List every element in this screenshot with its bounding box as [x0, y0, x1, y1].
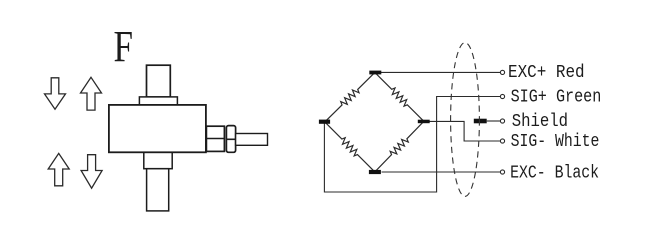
- svg-text:EXC- Black: EXC- Black: [510, 162, 599, 183]
- connector block A: [206, 126, 224, 151]
- wire EXC- from bottom node: [382, 171, 501, 173]
- load cell body: [109, 105, 206, 152]
- resistor R2 (top-right arm): [372, 70, 427, 125]
- wire SIG+ from left node: [324, 97, 500, 193]
- load cell top flange: [139, 97, 177, 105]
- wire shield lead: [487, 120, 501, 122]
- arrow up (bottom-left): [48, 153, 69, 185]
- arrow down (bottom-right): [81, 155, 102, 189]
- arrow down (top-left): [45, 78, 66, 109]
- resistor R3 (bottom-left arm): [322, 119, 377, 174]
- node pad top: [369, 71, 381, 75]
- terminal circle SIG-: [500, 139, 504, 143]
- wire SIG- from right node: [430, 121, 501, 141]
- cable rod: [236, 134, 268, 146]
- svg-text:SIG+ Green: SIG+ Green: [511, 86, 602, 107]
- node pad bottom: [369, 170, 381, 174]
- node pad left: [319, 120, 330, 124]
- load cell top stud: [147, 65, 171, 97]
- node pad right: [418, 120, 430, 124]
- terminal circle SIG+: [500, 94, 504, 98]
- resistor R1 (top-left arm): [322, 70, 377, 124]
- terminal circle Shield: [500, 119, 504, 123]
- arrow up (top-right): [81, 77, 102, 110]
- connector block B: [226, 126, 235, 153]
- svg-text:EXC+ Red: EXC+ Red: [508, 62, 585, 83]
- wire EXC+ from top node: [381, 71, 500, 73]
- shield pad: [474, 119, 487, 124]
- terminal circle EXC+: [500, 70, 504, 74]
- resistor R4 (bottom-right arm): [372, 119, 426, 175]
- load cell bottom flange: [144, 152, 172, 169]
- load cell bottom stud: [147, 169, 169, 211]
- connector block A mid line: [206, 138, 224, 140]
- svg-text:SIG- White: SIG- White: [511, 131, 600, 152]
- svg-text:Shield: Shield: [512, 111, 568, 132]
- connector block B mid line: [226, 138, 235, 140]
- cable dashed ellipse: [451, 43, 480, 197]
- svg-text:F: F: [114, 22, 134, 71]
- terminal circle EXC-: [500, 170, 504, 174]
